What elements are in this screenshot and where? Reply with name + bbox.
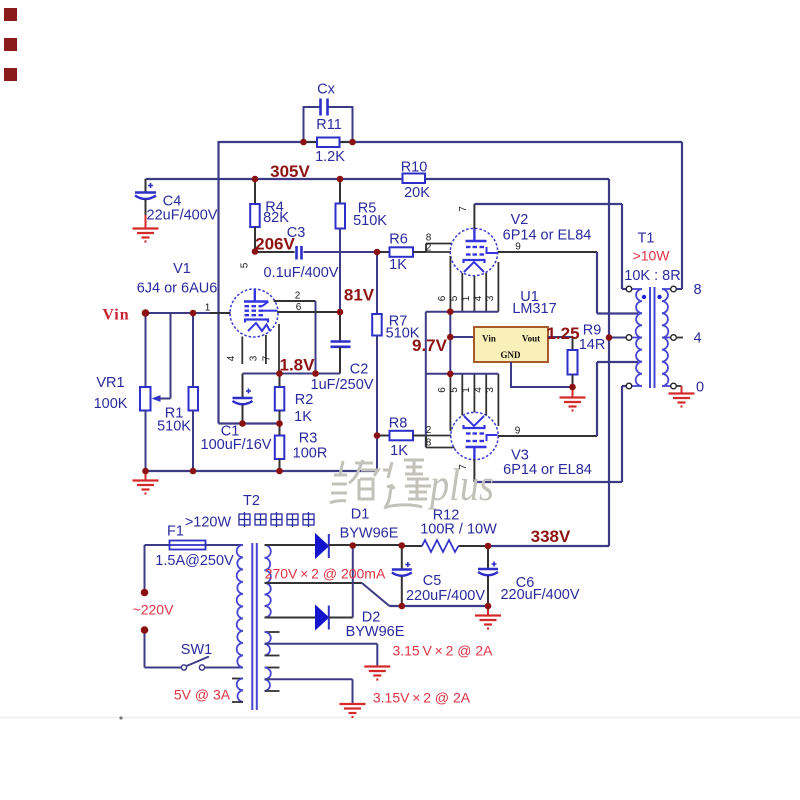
wire V3 screen pin9 to UL tap [498, 362, 638, 437]
svg-text:Vin: Vin [102, 307, 129, 324]
wire B+ vertical [608, 179, 610, 546]
svg-text:T2: T2 [243, 493, 260, 509]
V1 pin stubs 4 3 7 [226, 324, 279, 374]
svg-text:8: 8 [693, 282, 701, 298]
T2 HV secondary winding [265, 545, 271, 618]
T1 terminals secondary [671, 286, 677, 389]
svg-text:305V: 305V [270, 162, 310, 181]
svg-text:4: 4 [226, 355, 237, 361]
T1 terminals primary [626, 286, 632, 389]
wire to switch [145, 667, 182, 669]
wire HV bottom to D2 [265, 617, 316, 619]
svg-text:510K: 510K [157, 419, 191, 435]
wire heater A center to ground [265, 644, 378, 666]
capacitor C6 [478, 546, 580, 606]
svg-text:BYW96E: BYW96E [346, 624, 405, 640]
svg-text:3: 3 [485, 295, 496, 301]
ground under R9 [560, 387, 586, 411]
svg-text:Vin: Vin [482, 334, 496, 344]
wire 305V rail left [146, 178, 403, 180]
wire V3 plate pin7 [458, 386, 627, 482]
svg-text:1K: 1K [390, 443, 408, 459]
svg-text:1: 1 [461, 295, 472, 301]
svg-text:7: 7 [458, 206, 469, 212]
svg-text:>120W: >120W [185, 515, 232, 531]
svg-text:22uF/400V: 22uF/400V [147, 208, 218, 224]
svg-text:100uF/16V: 100uF/16V [201, 437, 272, 453]
ground under C4 [133, 229, 159, 242]
svg-text:~220V: ~220V [133, 602, 175, 618]
capacitor Cx [317, 82, 335, 116]
resistor R6 [377, 232, 426, 274]
svg-text:1.8V: 1.8V [280, 356, 316, 375]
svg-text:338V: 338V [531, 527, 571, 546]
resistor R7 [372, 252, 420, 471]
wire top feedback rail [219, 141, 683, 143]
svg-text:6: 6 [437, 295, 448, 301]
resistor R11 [304, 117, 353, 165]
wire V1 pin2 to cathode [274, 291, 316, 374]
T1 secondary winding [662, 289, 671, 386]
svg-text:VR1: VR1 [96, 375, 124, 391]
watermark [330, 460, 431, 508]
svg-text:100R: 100R [293, 446, 328, 462]
svg-text:R8: R8 [389, 416, 408, 432]
op-amp U1 LM317 [450, 289, 556, 362]
svg-text:10K : 8R: 10K : 8R [624, 268, 680, 284]
potentiometer VR1 [94, 313, 171, 471]
diode D1 [316, 507, 399, 559]
node 4 ohm stub [676, 337, 683, 339]
svg-text:C5: C5 [423, 573, 442, 589]
T2 heater winding B [265, 668, 280, 692]
wire heater chain vertical [425, 312, 427, 448]
wire switch to T2 [205, 667, 244, 669]
resistor R3 [275, 424, 328, 472]
svg-text:4: 4 [693, 331, 701, 347]
svg-text:R2: R2 [295, 392, 314, 408]
wire V2 pin bracket [426, 311, 499, 313]
wire 338V rail [488, 545, 609, 547]
svg-text:4: 4 [473, 295, 484, 301]
ground heater A [364, 667, 390, 680]
svg-text:1: 1 [461, 387, 472, 393]
svg-text:8: 8 [426, 438, 432, 449]
svg-text:7: 7 [262, 355, 273, 361]
ground under rail [133, 471, 159, 494]
svg-text:270V × 2 @ 200mA: 270V × 2 @ 200mA [265, 566, 386, 582]
svg-text:220uF/400V: 220uF/400V [500, 587, 579, 603]
capacitor C3 [255, 225, 377, 281]
svg-text:>10W: >10W [633, 248, 671, 264]
svg-text:4: 4 [473, 387, 484, 393]
wire U1 GND [511, 362, 573, 387]
wire feedback to cathode divider [219, 422, 280, 424]
svg-text:T1: T1 [638, 231, 655, 247]
V2 bottom pin stubs [437, 256, 498, 312]
svg-text:510K: 510K [353, 213, 387, 229]
label power transformer chinese [239, 512, 314, 527]
wire 0 tap to ground [676, 386, 681, 393]
transformer T2 labels [185, 493, 260, 531]
svg-text:Vout: Vout [522, 334, 540, 344]
ground under C6 [475, 606, 501, 629]
resistor R4 [250, 179, 289, 252]
svg-text:1: 1 [205, 303, 211, 314]
svg-text:1K: 1K [389, 257, 407, 273]
wire 8 ohm tap [676, 288, 682, 290]
svg-text:C2: C2 [350, 362, 369, 378]
diode D2 [316, 606, 405, 641]
fuse F1 [155, 524, 234, 570]
wire 305V rail right of R10 [425, 178, 609, 180]
wire V2 screen pin9 to UL tap [498, 242, 639, 314]
V2 grid pin bracket [426, 233, 452, 254]
svg-text:SW1: SW1 [181, 642, 212, 658]
wire HV top to D1 [265, 544, 316, 546]
svg-text:V2: V2 [511, 212, 529, 228]
resistor R9 [568, 323, 606, 388]
tube V1 [137, 261, 278, 337]
svg-text:9: 9 [515, 242, 521, 253]
svg-text:9.7V: 9.7V [412, 336, 448, 355]
wire AC left vertical upper [144, 545, 146, 593]
wire fuse to T2 [206, 544, 244, 546]
svg-text:6: 6 [296, 302, 302, 313]
svg-text:F1: F1 [167, 524, 184, 540]
svg-text:3: 3 [485, 387, 496, 393]
svg-text:D1: D1 [351, 507, 370, 523]
svg-text:20K: 20K [404, 185, 430, 201]
ground at T1 secondary [669, 394, 695, 407]
svg-text:5V @ 3A: 5V @ 3A [174, 687, 231, 703]
T2 core [252, 543, 256, 710]
resistor R2 [275, 374, 313, 426]
svg-text:1K: 1K [294, 409, 312, 425]
capacitor C5 [392, 545, 486, 606]
svg-text:Cx: Cx [317, 82, 335, 98]
wire C5 C6 bottom rail [389, 605, 488, 607]
svg-text:100K: 100K [94, 396, 128, 412]
svg-text:BYW96E: BYW96E [340, 526, 399, 542]
svg-text:2: 2 [426, 243, 432, 254]
svg-text:R10: R10 [401, 160, 428, 176]
svg-text:3.15V × 2 @ 2A: 3.15V × 2 @ 2A [373, 690, 471, 706]
wire ground rail [146, 470, 378, 472]
svg-text:GND: GND [501, 350, 522, 360]
T1 primary winding [632, 289, 643, 386]
svg-text:2: 2 [295, 291, 301, 302]
wire V1 grid pin1 [146, 303, 231, 314]
svg-text:LM317: LM317 [512, 301, 556, 317]
capacitor C1 [201, 374, 272, 454]
svg-text:9: 9 [515, 426, 521, 437]
ground heater B [340, 704, 366, 717]
svg-text:1.25: 1.25 [546, 324, 579, 343]
faint divider line [0, 716, 800, 719]
svg-text:R11: R11 [316, 117, 342, 133]
wire cathode bus [449, 312, 451, 374]
wire cathode 1.8V node [243, 373, 341, 375]
svg-text:6P14 or EL84: 6P14 or EL84 [503, 462, 592, 478]
wire V3 pin bracket [426, 373, 499, 375]
wire D2 output up to rail [329, 545, 353, 618]
svg-text:220uF/400V: 220uF/400V [406, 588, 485, 604]
T2 heater winding A [265, 632, 280, 656]
svg-text:1.5A@250V: 1.5A@250V [155, 553, 234, 569]
wire AC line top [145, 544, 170, 546]
wire top rail to 8ohm tap [681, 142, 683, 289]
svg-text:C3: C3 [287, 225, 306, 241]
svg-text:5: 5 [449, 295, 460, 301]
svg-text:1.2K: 1.2K [315, 149, 345, 165]
svg-text:V1: V1 [173, 261, 191, 277]
switch SW1 [181, 642, 212, 670]
svg-text:plus: plus [427, 459, 494, 510]
transformer T1 [624, 231, 680, 285]
svg-text:R3: R3 [299, 431, 318, 447]
T1 phase dots [642, 295, 662, 299]
tube V2 [450, 212, 591, 276]
wire V1 pin6 screen to 81V node [278, 302, 341, 313]
svg-text:81V: 81V [344, 286, 375, 305]
wire center tap B+ [609, 337, 627, 339]
V3 top pin stubs [437, 374, 498, 431]
svg-text:0.1uF/400V: 0.1uF/400V [264, 265, 339, 281]
resistor R12 [402, 508, 497, 553]
svg-text:1uF/250V: 1uF/250V [311, 377, 374, 393]
svg-text:14R: 14R [579, 337, 606, 353]
wire heater B center to ground [265, 679, 353, 703]
resistor R1 [157, 313, 198, 471]
V3 grid pin bracket [426, 425, 455, 449]
wire HV center tap [265, 583, 390, 606]
svg-text:0: 0 [696, 380, 704, 396]
edge marker squares [4, 8, 17, 81]
resistor R10 [401, 160, 431, 202]
svg-text:6: 6 [437, 387, 448, 393]
resistor R5 [336, 179, 388, 312]
wire D1 to C5 node [329, 544, 402, 546]
svg-text:5: 5 [240, 262, 251, 268]
svg-text:5: 5 [449, 387, 460, 393]
svg-text:3.15 V × 2 @ 2A: 3.15 V × 2 @ 2A [392, 643, 493, 659]
resistor R8 [377, 416, 426, 460]
T1 core [650, 287, 655, 388]
capacitor C4 [135, 179, 218, 228]
wire U1 Vout [548, 337, 573, 350]
svg-text:82K: 82K [263, 210, 289, 226]
tube V3 [451, 412, 592, 478]
wire AC left vertical lower [144, 630, 146, 668]
node Cx left [303, 107, 321, 142]
svg-text:2: 2 [426, 425, 432, 436]
wire feedback left vertical [217, 141, 219, 424]
svg-text:100R / 10W: 100R / 10W [420, 522, 497, 538]
wire V2 plate pin7 [458, 204, 627, 289]
T2 primary winding [237, 545, 243, 668]
capacitor C2 [311, 312, 374, 393]
T2 5V heater winding [174, 679, 243, 703]
svg-text:R6: R6 [389, 232, 408, 248]
node Cx right [328, 107, 354, 142]
svg-text:6J4 or 6AU6: 6J4 or 6AU6 [137, 281, 218, 297]
svg-text:3: 3 [249, 355, 260, 361]
